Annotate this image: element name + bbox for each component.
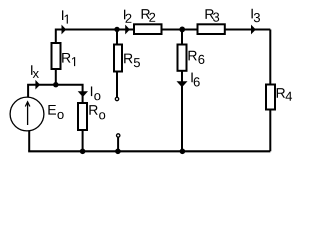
resistor R1	[52, 43, 61, 69]
open terminal above bottom stub	[117, 134, 120, 137]
junction node R1 bottom on middle wire	[53, 82, 58, 87]
label I1	[62, 10, 63, 20]
label R2	[142, 9, 150, 19]
label Ix	[31, 65, 32, 75]
label R1	[62, 53, 70, 63]
wire source bottom stem	[28, 131, 30, 152]
label I3	[252, 9, 253, 19]
junction node R6 bottom on bottom rail	[180, 149, 186, 155]
resistor R4	[266, 85, 275, 110]
wire R5 branch from top rail to open terminal	[116, 29, 118, 98]
junction node top of R6	[179, 27, 185, 33]
current source arrow shaft	[27, 103, 29, 125]
junction node Ro bottom on bottom rail	[80, 149, 86, 155]
arrow I1 on top rail	[62, 25, 67, 35]
arrow Ix on middle wire	[35, 80, 40, 90]
arrow Io on Ro branch	[78, 91, 88, 97]
resistor R5	[114, 45, 122, 72]
label R5	[124, 54, 132, 64]
current source arrowhead	[25, 102, 30, 107]
label Io	[91, 86, 92, 96]
label R6	[188, 51, 196, 61]
resistor R3	[198, 24, 225, 34]
label I2	[124, 10, 125, 20]
label Ro	[89, 105, 97, 115]
wire bottom rail	[28, 150, 270, 152]
arrow I3 after R3	[251, 25, 256, 35]
open terminal below R5	[115, 97, 118, 100]
label I6	[191, 73, 192, 83]
junction node top of R5	[114, 27, 119, 32]
junction node stub on bottom rail	[115, 149, 121, 155]
wire lower stub to bottom rail at R5 branch	[117, 137, 119, 151]
wire middle horizontal from source top corner to Ro branch	[28, 85, 83, 103]
resistor R6	[178, 45, 187, 71]
arrow I2 before R2	[125, 25, 130, 35]
wire R1 branch vertical	[55, 29, 57, 85]
arrow I6 on R6 branch	[177, 81, 188, 87]
label Eo	[48, 105, 56, 115]
label R3	[205, 9, 213, 19]
resistor Ro	[78, 103, 87, 130]
wire Ro bottom stem	[82, 131, 84, 152]
resistor R2	[134, 24, 162, 34]
wire R6 branch vertical	[181, 29, 183, 152]
wire right vertical from top rail down to R4 and bottom rail	[269, 30, 271, 152]
label R4	[277, 88, 285, 98]
current source Eo circle	[10, 97, 44, 131]
wire top rail from R1 top to R4 top	[56, 29, 270, 31]
